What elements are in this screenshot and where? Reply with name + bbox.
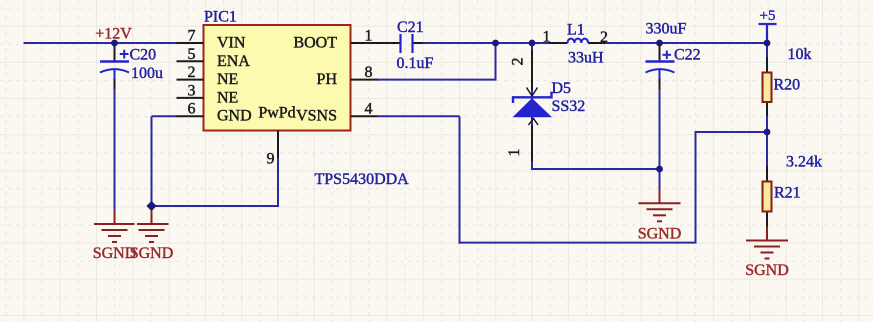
node: +12V junction with C20	[111, 40, 118, 47]
pin 4 VSNS	[351, 115, 378, 117]
D5 cathode pin arrowhead	[527, 88, 538, 97]
wire: R20 bottom to feedback node	[766, 102, 768, 117]
svg-text:PIC1: PIC1	[204, 9, 237, 26]
wire: feedback bottom run	[459, 242, 697, 244]
svg-text:8: 8	[365, 64, 373, 81]
wire: +5 rail down to R20	[766, 43, 768, 58]
node: +5 rail end junction	[764, 40, 771, 47]
svg-text:L1: L1	[567, 22, 585, 39]
wire: diode D5 anode down to corner and right to SGND node	[531, 160, 533, 170]
svg-text:1: 1	[365, 28, 373, 45]
diode D5 SS32 schottky	[531, 50, 533, 91]
wire: diode D5 cathode branch from switch node	[531, 43, 533, 51]
node: R20/R21 feedback divider node	[764, 129, 771, 136]
pin 1 BOOT	[351, 42, 378, 44]
svg-text:330uF: 330uF	[646, 21, 687, 38]
svg-text:2: 2	[510, 58, 527, 66]
svg-text:1: 1	[543, 29, 551, 46]
svg-text:C22: C22	[674, 47, 701, 64]
ground SGND at C22	[659, 189, 661, 203]
wire: pin 1 BOOT to C21 (cap lead)	[377, 42, 401, 44]
svg-text:D5: D5	[552, 80, 572, 97]
pin 9 PwPd pad	[277, 131, 279, 159]
svg-text:R21: R21	[774, 185, 801, 202]
ground SGND at R21	[766, 227, 768, 241]
wire: C21 right plate to BOOT node	[413, 42, 425, 44]
node: switch node with D5	[529, 40, 536, 47]
wire: pin 9 pad down and left to ground node	[277, 158, 279, 206]
resistor R20 10k	[763, 73, 772, 103]
op-amp U1: regulator IC PIC1 TPS5430DDA body	[204, 25, 351, 131]
svg-text:33uH: 33uH	[568, 50, 604, 67]
svg-text:+12V: +12V	[95, 26, 132, 43]
svg-text:0.1uF: 0.1uF	[397, 55, 434, 72]
svg-text:2: 2	[188, 64, 196, 81]
node: ground junction at pins 6/9	[146, 201, 156, 211]
svg-text:1: 1	[506, 149, 523, 157]
wire: feedback node down to R21	[766, 132, 768, 167]
svg-text:2: 2	[600, 29, 608, 46]
inductor L1 33uH	[549, 42, 568, 44]
capacitor C20 100u polarized	[100, 60, 129, 62]
svg-text:+5: +5	[760, 8, 776, 24]
svg-text:7: 7	[188, 28, 196, 45]
svg-text:C20: C20	[130, 47, 157, 64]
pin 8 PH	[351, 79, 378, 81]
wire: inductor L1 output to C22 and +5	[605, 42, 767, 44]
svg-text:C21: C21	[397, 19, 424, 36]
svg-text:NE: NE	[217, 71, 238, 88]
svg-text:3: 3	[188, 82, 196, 99]
wire: C22 bottom lead to SGND	[659, 69, 661, 80]
wire: C20 bottom lead down to SGND	[114, 69, 116, 80]
svg-text:VSNS: VSNS	[296, 108, 337, 125]
wire: pin 4 VSNS feedback run	[377, 115, 460, 117]
svg-text:PH: PH	[317, 71, 338, 88]
pin 3 NE	[177, 97, 204, 99]
wire: pin 6 GND left then down to node	[152, 115, 178, 117]
wire: PH node to switch node rail	[496, 42, 549, 44]
svg-text:5: 5	[188, 46, 196, 63]
svg-text:9: 9	[267, 151, 275, 168]
D5 anode pin arrowhead	[529, 119, 539, 126]
svg-text:10k: 10k	[788, 46, 812, 63]
svg-text:SS32: SS32	[552, 98, 586, 115]
svg-text:3.24k: 3.24k	[786, 154, 822, 171]
svg-text:TPS5430DDA: TPS5430DDA	[315, 171, 410, 188]
node: output junction with C22	[656, 40, 663, 47]
ground SGND at IC pins 6/9	[151, 210, 153, 224]
svg-text:SGND: SGND	[130, 245, 174, 262]
svg-text:VIN: VIN	[217, 35, 246, 52]
wire: R21 bottom to SGND	[766, 212, 768, 228]
ground SGND at C20	[114, 210, 116, 224]
pin 2 NE	[177, 79, 204, 81]
pin 5 ENA	[177, 60, 204, 62]
svg-text:6: 6	[188, 101, 196, 118]
capacitor C22 330uF polarized	[659, 44, 661, 62]
node: BOOT/C21/PH junction	[492, 40, 499, 47]
svg-text:100u: 100u	[131, 65, 163, 82]
C22 polarity plus	[663, 54, 672, 56]
svg-text:R20: R20	[774, 77, 801, 94]
capacitor C21 0.1uF	[399, 34, 401, 53]
svg-text:BOOT: BOOT	[293, 35, 337, 52]
wire: BOOT node down and left to pin 8 PH	[495, 42, 497, 80]
node: D5/C22 ground junction	[656, 166, 663, 173]
pin 6 GND	[177, 115, 204, 117]
svg-text:GND: GND	[217, 108, 252, 125]
svg-text:ENA: ENA	[217, 53, 250, 70]
wire: feedback riser up to divider node	[695, 132, 697, 243]
svg-text:NE: NE	[217, 89, 238, 106]
pin 7 VIN	[177, 42, 204, 44]
resistor R21 3.24k	[763, 182, 772, 212]
svg-text:SGND: SGND	[638, 226, 682, 243]
svg-text:4: 4	[365, 101, 373, 118]
wire: +12V input rail to pin 7	[24, 42, 177, 44]
wire: +5 power stub	[766, 24, 768, 43]
wire: C20 top lead from rail	[114, 43, 116, 62]
C20 polarity plus	[120, 53, 129, 55]
svg-text:PwPd: PwPd	[258, 105, 295, 122]
svg-text:SGND: SGND	[745, 262, 789, 279]
